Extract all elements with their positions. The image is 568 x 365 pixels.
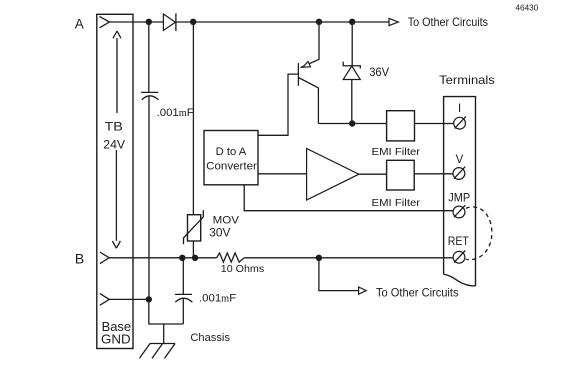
TB down arrow — [112, 150, 120, 248]
wire DAC to transistor base — [258, 74, 298, 135]
svg-text:GND: GND — [101, 333, 131, 347]
junction node — [349, 19, 355, 25]
svg-text:10 Ohms: 10 Ohms — [221, 264, 264, 275]
wire MOV top lead — [192, 22, 194, 215]
terminal screw V — [453, 168, 465, 180]
TB up arrow — [113, 31, 121, 113]
capacitor .001mF (bottom) — [175, 293, 192, 295]
wire cap2 bottom lead — [182, 298, 184, 324]
arrowhead to other circuits (top) — [389, 18, 398, 25]
wire chassis stem — [163, 324, 165, 344]
wire gnd bottom L — [149, 299, 184, 324]
EMI filter box 1 — [387, 111, 415, 141]
junction node — [190, 19, 196, 25]
wire collector rail — [318, 123, 386, 125]
terminal screw JMP — [453, 206, 465, 218]
svg-text:46430: 46430 — [516, 3, 539, 13]
wire gnd row — [109, 298, 149, 300]
svg-text:.001mF: .001mF — [157, 107, 194, 119]
wire A rail — [109, 21, 389, 23]
terminal screw I — [454, 117, 466, 129]
junction node — [316, 19, 322, 25]
terminals box torn edge — [444, 274, 476, 286]
wire DAC to op-amp — [258, 173, 307, 175]
svg-text:A: A — [75, 16, 84, 31]
transistor Q (PNP) — [297, 63, 299, 86]
wire cap1 top lead — [148, 22, 150, 92]
svg-text:.001mF: .001mF — [199, 293, 236, 305]
svg-text:TB: TB — [105, 119, 123, 133]
wire B rail right — [244, 257, 453, 259]
wire MOV bottom lead — [192, 241, 194, 258]
svg-text:EMI Filter: EMI Filter — [372, 198, 421, 209]
svg-text:To Other Circuits: To Other Circuits — [408, 15, 488, 29]
junction node — [146, 19, 152, 25]
wire EMI1 to I terminal — [415, 123, 454, 125]
input chevron base gnd — [100, 294, 109, 306]
capacitor .001mF (top) — [141, 91, 158, 93]
terminals box — [444, 97, 476, 286]
wire cap1 bottom lead — [148, 96, 150, 300]
junction node — [316, 255, 322, 261]
wire zener bottom lead — [351, 80, 353, 124]
svg-text:D to A: D to A — [216, 146, 247, 158]
svg-text:Terminals: Terminals — [439, 73, 495, 87]
arrowhead to other circuits (bottom) — [359, 287, 367, 294]
svg-text:24V: 24V — [103, 138, 125, 152]
svg-text:To Other Circuits: To Other Circuits — [376, 285, 459, 299]
op-amp — [307, 149, 359, 201]
input chevron A — [100, 16, 110, 27]
svg-text:30V: 30V — [209, 226, 230, 240]
svg-text:JMP: JMP — [448, 193, 470, 205]
svg-text:EMI Filter: EMI Filter — [372, 147, 421, 158]
D to A converter box — [204, 131, 258, 185]
wire zener top lead — [351, 22, 353, 66]
resistor 10 Ohms — [217, 253, 245, 262]
chassis ground — [139, 344, 175, 359]
wire DAC bottom to JMP — [244, 185, 453, 211]
dashed jumper curve JMP-RET — [466, 207, 492, 260]
wire EMI2 to V terminal — [414, 173, 453, 175]
svg-text:MOV: MOV — [213, 214, 240, 226]
svg-text:V: V — [456, 154, 464, 166]
wire cap2 top lead — [182, 258, 184, 295]
wire op-amp to EMI2 — [359, 173, 387, 175]
wire to other circuits (bottom) — [319, 258, 359, 291]
input chevron B — [100, 252, 109, 264]
junction node — [192, 255, 198, 261]
zener diode 36V — [343, 62, 360, 69]
MOV varistor — [188, 215, 201, 241]
EMI filter box 2 — [387, 160, 415, 190]
svg-text:Chassis: Chassis — [190, 332, 230, 344]
terminal screw RET — [453, 251, 465, 263]
svg-text:Converter: Converter — [206, 161, 257, 173]
terminal block TB box — [97, 14, 133, 348]
junction node — [146, 296, 152, 302]
svg-text:36V: 36V — [369, 65, 389, 79]
junction node — [179, 255, 185, 261]
svg-text:I: I — [458, 103, 461, 115]
diode — [163, 14, 175, 30]
wire B rail left — [109, 257, 216, 259]
svg-text:RET: RET — [448, 236, 469, 248]
svg-text:B: B — [75, 251, 84, 267]
junction node — [349, 120, 355, 126]
